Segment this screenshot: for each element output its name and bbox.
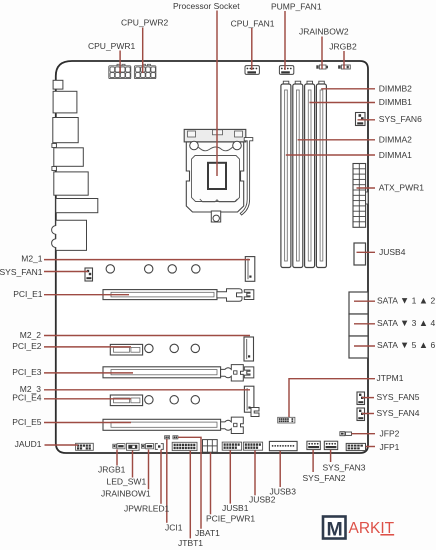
wire callout CPU_FAN1 (251, 28, 253, 70)
socket bottom tab circle (213, 215, 219, 221)
wire callout ATX_PWR1 (357, 187, 376, 189)
wire callout JTBT1 (189, 451, 191, 539)
svg-text:ARKIT: ARKIT (349, 520, 395, 537)
wire callout SYS_FAN2 (312, 450, 314, 472)
connector JFP2 (340, 432, 352, 436)
node standoff hole C2 (170, 396, 178, 404)
wire callout JUSB3 (279, 451, 281, 487)
slot PCI_E3 (103, 365, 254, 381)
node IO block 7 (52, 220, 87, 250)
svg-text:JRGB1: JRGB1 (98, 464, 126, 474)
wire callout JAUD1 (45, 444, 79, 446)
slot PCI_E4 (110, 395, 142, 406)
connector CPU_PWR2 (134, 64, 156, 78)
svg-text:JBAT1: JBAT1 (195, 528, 220, 538)
svg-text:SYS_FAN4: SYS_FAN4 (377, 408, 420, 418)
wire callout JCI1 (166, 439, 168, 523)
wire callout JFP2 (352, 433, 376, 435)
connector JTBT1 (172, 442, 197, 450)
socket bottom bar (200, 199, 238, 202)
wire callout JUSB1 (229, 450, 231, 503)
svg-text:CPU_FAN1: CPU_FAN1 (231, 18, 275, 28)
connector JCI1 (165, 436, 170, 439)
node IO block small square (53, 80, 63, 89)
socket plate curve (198, 147, 233, 151)
connector JUSB2 (243, 442, 262, 450)
wire callout JTPM1 (289, 379, 375, 417)
connector JBAT1 (173, 436, 178, 439)
connector JUSB3 (269, 441, 297, 450)
connector SATA 5-6 (349, 336, 368, 358)
connector JRGB2 (338, 65, 350, 69)
wire callout JRAINBOW2 (321, 37, 323, 70)
svg-text:DIMMB2: DIMMB2 (379, 84, 412, 94)
svg-text:M2_2: M2_2 (20, 330, 42, 340)
svg-text:JTPM1: JTPM1 (377, 373, 404, 383)
wire callout DIMMA1 (286, 154, 375, 156)
svg-text:JRAINBOW1: JRAINBOW1 (101, 488, 151, 498)
svg-text:SATA ▼ 3 ▲ 4: SATA ▼ 3 ▲ 4 (377, 318, 435, 329)
socket hinge circle right (233, 141, 242, 150)
svg-text:Processor Socket: Processor Socket (173, 1, 240, 11)
svg-text:PCI_E5: PCI_E5 (12, 417, 42, 427)
connector ATX_PWR1 (353, 164, 368, 228)
wire callout SYS_FAN5 (362, 397, 374, 399)
connector SATA 3-4 (349, 314, 368, 336)
node IO block 2 (53, 91, 77, 113)
svg-text:M2_1: M2_1 (21, 254, 43, 264)
svg-text:M: M (327, 518, 343, 540)
wire callout JUSB4 (357, 251, 376, 253)
wire callout JPWRLED1 (160, 450, 162, 504)
DIMM slot 1 (281, 81, 291, 267)
wire callout CPU_PWR2 (142, 28, 144, 74)
connector SYS_FAN1 (85, 268, 93, 281)
node IO block 5 (54, 172, 88, 195)
connector SYS_FAN3 (324, 441, 337, 449)
wire callout DIMMA2 (298, 139, 375, 141)
connector CPU_FAN1 (245, 66, 259, 75)
connector JUSB4 (354, 243, 366, 265)
svg-text:JRAINBOW2: JRAINBOW2 (299, 26, 349, 36)
connector PCIE_PWR1 (203, 440, 218, 453)
connector M2_3 (244, 386, 254, 412)
wire callout SYS_FAN6 (358, 119, 376, 121)
wire callout SATA56 (354, 345, 375, 347)
socket main body (186, 142, 243, 212)
jumper JPWRLED1 (155, 444, 163, 450)
wire callout SYS_FAN1 (44, 271, 88, 273)
CPU socket U1 (184, 129, 253, 222)
socket top bracket (184, 129, 246, 142)
socket bottom tab (211, 211, 220, 222)
MARKIT watermark logo (323, 517, 395, 541)
wire callout PCI_E4 (44, 398, 131, 400)
wire callout JBAT1 (178, 437, 201, 529)
connector JRGB1 (113, 444, 125, 449)
svg-text:PUMP_FAN1: PUMP_FAN1 (271, 1, 322, 11)
wire callout PCIE_PWR1 (210, 452, 212, 514)
node standoff hole A4 (192, 265, 200, 273)
DIMM slot 2 (293, 81, 303, 267)
wire callout PCI_E3 (44, 372, 133, 374)
connector SATA 1-2 (349, 292, 368, 314)
svg-text:JCI1: JCI1 (165, 522, 183, 532)
DIMM slot 3 (305, 81, 315, 267)
wire callout SATA12 (354, 300, 375, 302)
wire callout Processor Socket (216, 11, 218, 177)
connector SYS_FAN4 (357, 408, 365, 421)
svg-text:LED_SW1: LED_SW1 (107, 477, 147, 487)
socket lever (240, 138, 253, 215)
connector JAUD1 (76, 443, 94, 450)
svg-text:SYS_FAN3: SYS_FAN3 (323, 463, 366, 473)
wire callout SATA34 (354, 323, 375, 325)
node IO block 4 (54, 148, 84, 167)
wire callout JFP1 (366, 446, 375, 448)
svg-text:CPU_PWR2: CPU_PWR2 (121, 18, 169, 28)
svg-text:CPU_PWR1: CPU_PWR1 (88, 41, 136, 51)
wire callout DIMMB2 (321, 88, 375, 90)
wire left edge tab 1 (52, 144, 57, 148)
svg-text:JPWRLED1: JPWRLED1 (124, 503, 170, 513)
connector SYS_FAN5 (357, 392, 365, 405)
connector JRAINBOW1 (141, 444, 153, 449)
socket hinge circle left (190, 141, 199, 150)
svg-text:SYS_FAN1: SYS_FAN1 (0, 267, 43, 277)
svg-text:PCI_E3: PCI_E3 (12, 367, 42, 377)
svg-text:PCIE_PWR1: PCIE_PWR1 (206, 514, 255, 524)
svg-text:JUSB1: JUSB1 (222, 503, 249, 513)
svg-text:JUSB3: JUSB3 (270, 486, 297, 496)
node standoff hole C1 (145, 396, 153, 404)
svg-text:DIMMA2: DIMMA2 (379, 135, 412, 145)
node IO block 3 (53, 118, 78, 143)
node standoff hole A3 (168, 265, 176, 273)
board outline (56, 61, 368, 453)
svg-text:ATX_PWR1: ATX_PWR1 (379, 183, 424, 193)
svg-text:SATA ▼ 1 ▲ 2: SATA ▼ 1 ▲ 2 (377, 295, 435, 306)
wire callout M2_2 (44, 335, 250, 337)
svg-text:DIMMA1: DIMMA1 (379, 150, 412, 160)
svg-text:JFP1: JFP1 (380, 442, 400, 452)
wire callout JRAINBOW1 (148, 450, 150, 490)
connector SYS_FAN2 (307, 441, 320, 449)
wire callout JRGB1 (116, 450, 118, 466)
wire callout SYS_FAN3 (330, 450, 332, 462)
connector M2_2 (244, 337, 254, 361)
node standoff hole B1 (145, 344, 153, 352)
svg-text:PCI_E2: PCI_E2 (12, 341, 42, 351)
socket inner frame (192, 156, 240, 202)
svg-text:JUSB4: JUSB4 (379, 247, 406, 257)
connector JUSB1 (222, 442, 241, 450)
slot PCI_E5 (103, 408, 259, 434)
svg-text:SYS_FAN5: SYS_FAN5 (377, 392, 420, 402)
connector CPU_PWR1 (109, 64, 131, 78)
wire callout PCI_E2 (44, 346, 131, 348)
node standoff hole A1 (106, 265, 114, 273)
node standoff hole C3 (191, 396, 199, 404)
wire callout PCI_E5 (44, 422, 131, 424)
slot PCI_E1 (103, 289, 254, 302)
svg-text:PCI_E1: PCI_E1 (13, 289, 43, 299)
connector SYS_FAN6 (356, 113, 366, 126)
svg-text:DIMMB1: DIMMB1 (379, 97, 412, 107)
wire callout SYS_FAN4 (362, 413, 374, 415)
wire callout PCI_E1 (44, 294, 129, 296)
svg-text:JAUD1: JAUD1 (15, 439, 42, 449)
svg-text:JRGB2: JRGB2 (329, 42, 357, 52)
node standoff hole B2 (170, 344, 178, 352)
wire left edge tab 2 (52, 167, 57, 171)
wire callout PUMP_FAN1 (284, 11, 286, 70)
socket die window (208, 163, 226, 189)
wire callout JRGB2 (343, 51, 345, 69)
svg-text:JTBT1: JTBT1 (178, 538, 203, 548)
slot PCI_E2 (110, 344, 142, 355)
connector M2_1 (245, 257, 255, 282)
connector JTPM1 (278, 417, 295, 423)
switch LED_SW1 (127, 443, 140, 450)
wire callout M2_3 (44, 389, 250, 391)
svg-text:SATA ▼ 5 ▲ 6: SATA ▼ 5 ▲ 6 (377, 340, 435, 351)
wire callout JUSB2 (254, 450, 256, 495)
svg-text:SYS_FAN6: SYS_FAN6 (379, 114, 422, 124)
svg-text:JFP2: JFP2 (380, 429, 400, 439)
node standoff hole B3 (191, 344, 199, 352)
wire callout LED_SW1 (132, 451, 134, 478)
svg-text:PCI_E4: PCI_E4 (12, 392, 42, 402)
wire callout CPU_PWR1 (119, 51, 121, 74)
DIMM slot 4 (316, 81, 326, 267)
wire callout M2_1 (44, 259, 250, 261)
node standoff hole A2 (145, 265, 153, 273)
connector JRAINBOW2 (316, 65, 328, 69)
connector PUMP_FAN1 (279, 66, 293, 75)
svg-text:SYS_FAN2: SYS_FAN2 (303, 473, 346, 483)
connector JFP1 (346, 443, 365, 450)
node IO block 6 (56, 199, 98, 213)
wire callout DIMMB1 (309, 102, 375, 104)
